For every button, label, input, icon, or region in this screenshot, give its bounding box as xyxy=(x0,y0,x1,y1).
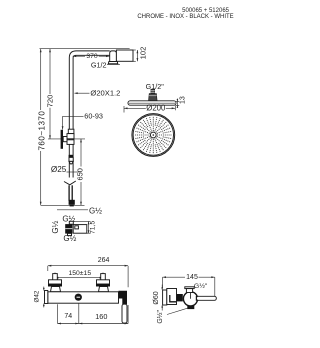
riser pipe outer line with top bend xyxy=(69,51,109,178)
holder taper xyxy=(69,161,73,164)
leader for G1/2 bottom connection xyxy=(57,209,88,211)
svg-text:Ø42: Ø42 xyxy=(34,290,41,302)
leader for bottom G1/2" xyxy=(167,308,188,314)
shower head hub xyxy=(150,132,156,138)
right wall union flange xyxy=(97,280,110,284)
bottom extension right xyxy=(127,305,129,324)
handle lever front xyxy=(122,304,127,323)
dimension Ø60 xyxy=(153,285,163,311)
top port xyxy=(185,287,194,289)
pipe break symbol xyxy=(64,181,76,185)
svg-text:160: 160 xyxy=(95,312,107,321)
dimension 650 xyxy=(76,139,85,205)
mixer left end cap xyxy=(45,291,48,304)
elbow right housing xyxy=(73,225,87,234)
svg-text:Ø25: Ø25 xyxy=(51,165,67,174)
elbow top nub xyxy=(69,221,73,224)
dimension 264 xyxy=(48,257,128,287)
leader for Ø25 xyxy=(67,171,81,173)
right wall union nut xyxy=(101,274,106,280)
mid extension line through slider xyxy=(48,138,85,140)
bottom extension middle xyxy=(78,303,80,323)
head nipple cone xyxy=(149,94,158,101)
dimension 145 xyxy=(163,274,215,296)
dimension 102 xyxy=(137,47,148,62)
hose end fitting xyxy=(69,200,75,205)
svg-text:13: 13 xyxy=(179,96,186,104)
cartridge circle xyxy=(183,292,197,306)
svg-text:650: 650 xyxy=(76,168,85,180)
lower pipe segment xyxy=(68,185,70,201)
rod hub xyxy=(196,296,199,301)
leader for 60-93 xyxy=(63,116,84,129)
left wall union flange xyxy=(49,280,62,284)
leader for Ø20X1.2 xyxy=(75,92,90,94)
slider knob xyxy=(61,130,63,149)
svg-text:150±15: 150±15 xyxy=(68,270,91,277)
shower head face inner circle xyxy=(133,115,173,155)
svg-text:102: 102 xyxy=(139,47,148,60)
nozzle dots xyxy=(135,117,172,154)
dimension 370 xyxy=(73,53,110,60)
lever rod side xyxy=(197,296,217,300)
svg-text:G½": G½" xyxy=(156,309,164,323)
svg-text:370: 370 xyxy=(86,53,98,60)
block extension stubs xyxy=(133,49,136,51)
elbow bottom nub xyxy=(68,233,72,235)
riser pipe inner line with top bend xyxy=(73,55,110,177)
svg-text:G½": G½" xyxy=(194,282,208,290)
elbow inner square xyxy=(75,226,79,229)
side neck dark xyxy=(177,294,183,301)
side wall flange xyxy=(163,290,167,305)
svg-text:G½: G½ xyxy=(51,220,60,233)
svg-text:G1/2: G1/2 xyxy=(91,60,107,69)
bottom extension line xyxy=(41,204,85,206)
slider collar xyxy=(68,129,74,133)
dimension 150±15 xyxy=(55,270,103,278)
svg-text:264: 264 xyxy=(98,257,110,264)
arm end block xyxy=(116,50,133,61)
dimension 71,5 xyxy=(73,221,96,234)
mixer body front xyxy=(48,292,119,303)
dimension 760~1370 xyxy=(38,49,47,206)
shower head side bar xyxy=(128,101,176,105)
hand shower holder body xyxy=(69,157,73,161)
hand shower holder cap xyxy=(69,155,74,157)
left union dark ring xyxy=(48,284,62,287)
svg-text:Ø20X1.2: Ø20X1.2 xyxy=(90,89,120,98)
slider lower block xyxy=(67,140,74,145)
dimension Ø200 xyxy=(124,104,175,113)
dimension Ø42 xyxy=(34,287,45,308)
right union connector xyxy=(99,287,109,292)
svg-text:720: 720 xyxy=(46,95,55,108)
svg-text:74: 74 xyxy=(64,313,72,320)
drop nozzle flare xyxy=(108,62,118,65)
dimension 13 xyxy=(176,96,186,108)
black handle block xyxy=(119,291,128,304)
top extension line xyxy=(40,48,130,50)
bottom extension left xyxy=(57,304,59,323)
slider upper block xyxy=(67,134,74,139)
svg-text:Ø200: Ø200 xyxy=(146,104,166,113)
shower arm drop elbow xyxy=(110,51,117,62)
svg-text:145: 145 xyxy=(186,274,198,281)
svg-text:760~1370: 760~1370 xyxy=(38,111,47,151)
side body housing xyxy=(167,289,177,305)
svg-text:CHROME - INOX - BLACK - WHITE: CHROME - INOX - BLACK - WHITE xyxy=(137,14,233,20)
slider stem xyxy=(63,137,67,142)
diverter button xyxy=(75,294,82,301)
head nipple stem xyxy=(151,89,155,93)
leader for G1/2 xyxy=(107,63,120,65)
left union connector xyxy=(51,287,61,292)
shower head face outer circle xyxy=(132,114,175,157)
dimension 720 xyxy=(46,49,55,139)
svg-text:60-93: 60-93 xyxy=(84,112,103,121)
svg-text:Ø60: Ø60 xyxy=(153,291,160,304)
side body inner dark detail xyxy=(170,295,176,302)
elbow black body xyxy=(65,224,72,234)
svg-text:G½: G½ xyxy=(63,234,76,243)
svg-text:G½: G½ xyxy=(89,206,102,215)
bottom port xyxy=(187,306,194,310)
svg-text:71,5: 71,5 xyxy=(89,221,96,234)
left wall union nut xyxy=(53,274,58,280)
dimension 74 xyxy=(58,313,129,324)
right union dark ring xyxy=(96,284,110,287)
